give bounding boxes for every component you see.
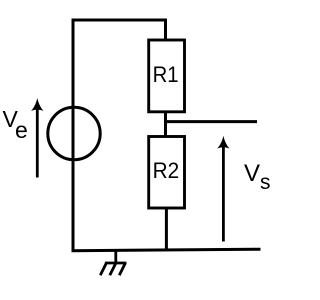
- arrow for Vs (pointing up): [217, 136, 229, 242]
- svg-text:e: e: [15, 117, 28, 143]
- label Ve: [3, 106, 28, 143]
- wire: top horizontal from left branch to right branch: [72, 19, 166, 22]
- wire: vertical between R1 and R2: [164, 112, 167, 137]
- svg-text:s: s: [260, 171, 271, 194]
- wire: output tap horizontal: [166, 120, 258, 123]
- wire: left vertical branch: [72, 19, 75, 251]
- svg-text:R1: R1: [153, 62, 179, 87]
- svg-text:V: V: [244, 160, 260, 187]
- wire: bottom horizontal: [72, 249, 261, 251]
- label Vs: [244, 160, 271, 194]
- resistor R1: [149, 40, 185, 112]
- wire: stub from R2 to bottom wire: [165, 208, 168, 250]
- wire: stub from top wire to R1: [164, 19, 167, 41]
- voltage source Ve (circle): [48, 107, 100, 159]
- arrow for Ve (pointing up): [31, 98, 43, 178]
- svg-text:R2: R2: [153, 158, 180, 183]
- ground: [100, 251, 126, 275]
- resistor R2: [149, 137, 185, 209]
